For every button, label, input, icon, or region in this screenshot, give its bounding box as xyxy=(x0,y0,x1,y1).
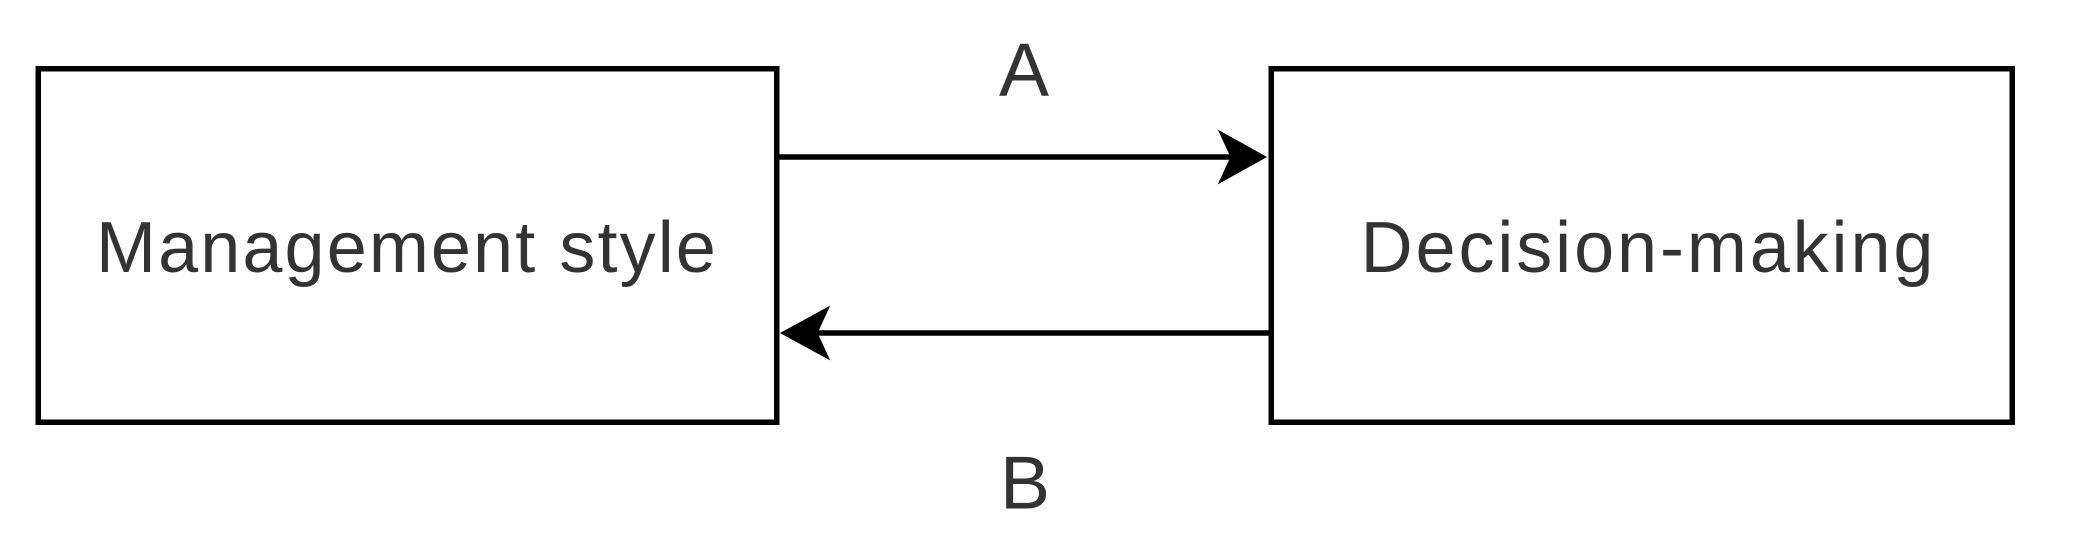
svg-text:A: A xyxy=(999,28,1049,112)
arrowhead B (points left) xyxy=(782,308,828,358)
arrowhead A (points right) xyxy=(1220,132,1265,182)
svg-text:Decision-making: Decision-making xyxy=(1361,208,1937,288)
wire: arrow B shaft xyxy=(816,330,1269,336)
box: Decision-making xyxy=(1271,69,2012,423)
svg-text:B: B xyxy=(1000,441,1050,525)
svg-text:Management style: Management style xyxy=(96,208,718,288)
wire: arrow A shaft xyxy=(779,154,1233,160)
box: Management style xyxy=(38,69,777,423)
